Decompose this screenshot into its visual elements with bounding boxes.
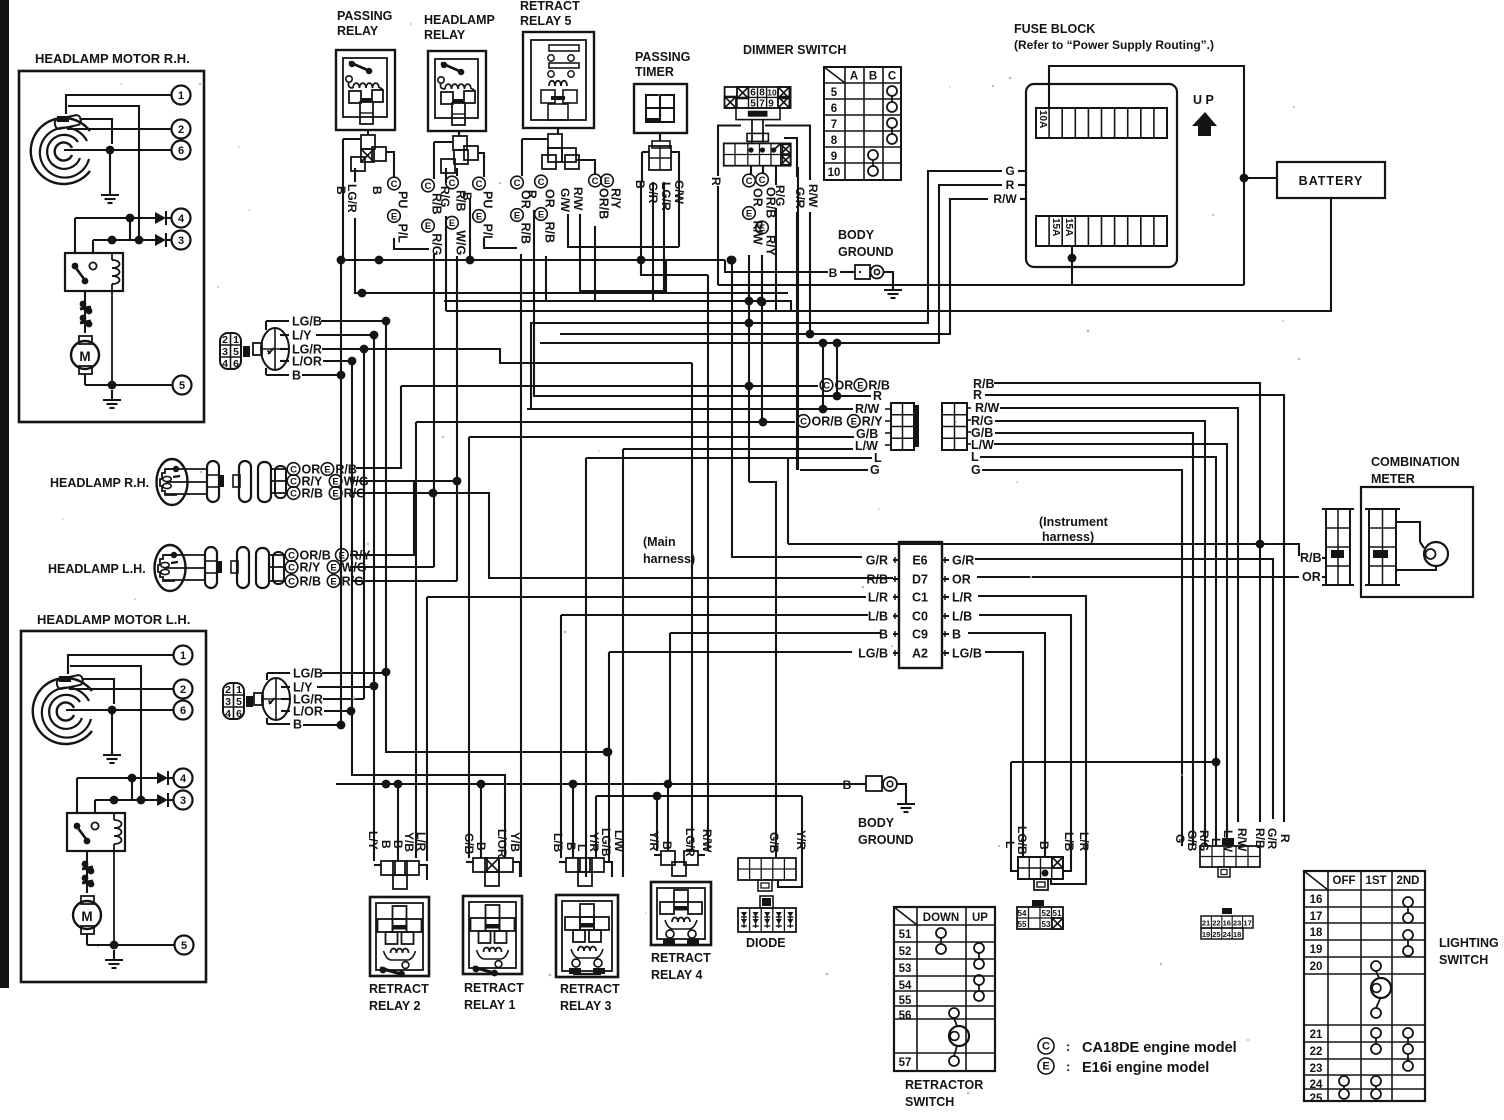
svg-text:C: C — [1042, 1040, 1050, 1052]
svg-text:51: 51 — [1053, 909, 1062, 918]
wire L inst — [980, 457, 1216, 846]
svg-text:SWITCH: SWITCH — [1439, 953, 1488, 967]
wire R/B to meter — [1260, 544, 1299, 556]
svg-text:4: 4 — [225, 708, 231, 720]
svg-text:Y/R: Y/R — [647, 831, 661, 851]
harness junction box E6-A2 — [899, 542, 942, 668]
svg-text:R: R — [525, 190, 539, 199]
wire G/R vertical right — [1272, 558, 1274, 560]
svg-text:BODY: BODY — [838, 228, 875, 242]
svg-text:5: 5 — [831, 87, 838, 99]
wire B passing relay — [342, 190, 344, 260]
svg-text:G/R: G/R — [866, 554, 888, 568]
svg-text:3: 3 — [225, 696, 231, 708]
wire timer G/W down — [678, 182, 680, 247]
headlamp R.H. bulb — [157, 459, 188, 505]
bus B bottom — [336, 783, 853, 785]
svg-text:C: C — [746, 176, 753, 187]
wire headlamp relay W/G stub — [456, 168, 458, 176]
svg-text:R/Y: R/Y — [300, 561, 322, 575]
svg-text:55: 55 — [899, 995, 912, 1007]
svg-text:23: 23 — [1310, 1063, 1323, 1075]
svg-text:16: 16 — [1310, 894, 1323, 906]
svg-text:R: R — [1006, 178, 1015, 192]
svg-text:B: B — [379, 840, 393, 849]
svg-text:C: C — [888, 71, 896, 83]
wire timer B branch — [641, 260, 708, 275]
svg-text:25: 25 — [1310, 1093, 1323, 1105]
svg-text:52: 52 — [1042, 909, 1051, 918]
svg-text:B: B — [292, 369, 301, 383]
vertical LG/R short — [363, 349, 365, 699]
svg-text:R/B: R/B — [302, 487, 324, 501]
svg-text:20: 20 — [1310, 961, 1323, 973]
wire LG/B A2 left — [609, 651, 852, 653]
svg-text:L/Y: L/Y — [292, 329, 312, 343]
svg-text:R/B: R/B — [300, 575, 322, 589]
svg-text:G/R: G/R — [1265, 828, 1279, 850]
svg-text:C: C — [290, 476, 297, 487]
svg-text:RETRACT: RETRACT — [651, 951, 711, 965]
svg-text:R/B: R/B — [1300, 551, 1322, 565]
svg-text:B: B — [879, 628, 888, 642]
svg-text:7: 7 — [831, 119, 837, 131]
svg-text:RELAY: RELAY — [424, 28, 466, 42]
svg-text:Y/B: Y/B — [508, 832, 522, 852]
svg-text:9: 9 — [831, 151, 837, 163]
svg-text:R: R — [709, 177, 723, 186]
wire dimmer OR/B down — [761, 255, 763, 422]
wire dimmer G/R down — [797, 167, 799, 470]
svg-text:Y/R: Y/R — [587, 832, 601, 852]
svg-text:1: 1 — [178, 90, 184, 102]
svg-text:1: 1 — [180, 650, 186, 662]
wire W/G vertical — [456, 256, 458, 581]
wire L lighting — [1011, 761, 1216, 763]
wire dimmer R/W down — [809, 212, 811, 334]
svg-text:L/B: L/B — [551, 833, 565, 853]
svg-text:8: 8 — [831, 135, 838, 147]
svg-text:LG/R: LG/R — [659, 182, 673, 211]
svg-text:B: B — [869, 71, 877, 83]
svg-text:21: 21 — [1310, 1029, 1323, 1041]
svg-text:RELAY 4: RELAY 4 — [651, 968, 702, 982]
wire RW vertical long — [707, 275, 709, 851]
svg-text:E: E — [1042, 1060, 1049, 1072]
wire retract5 G/W right — [568, 214, 679, 247]
main harness connector grid — [891, 403, 914, 450]
wire dimmer OR/RW down — [748, 255, 750, 482]
svg-text:54: 54 — [1018, 909, 1027, 918]
wire L/R C1 left — [427, 596, 866, 598]
svg-text:E: E — [514, 210, 520, 221]
wire L/B C0 left — [561, 614, 868, 616]
svg-text:R/B: R/B — [543, 222, 557, 244]
svg-text:(Instrument: (Instrument — [1039, 515, 1109, 529]
svg-text:RETRACTOR: RETRACTOR — [905, 1078, 983, 1092]
svg-text:19: 19 — [1202, 930, 1210, 939]
bus B top — [341, 259, 725, 261]
svg-text:C1: C1 — [912, 591, 928, 605]
svg-text:C: C — [823, 380, 830, 391]
headlamp R.H. connector pills — [166, 468, 207, 470]
wire RH row2 RY/WG — [352, 480, 457, 482]
wire Y/R diode down — [778, 796, 802, 887]
instrument harness connector grid — [942, 403, 967, 450]
wire feed row 301 — [444, 301, 791, 311]
wire motor RH conn LG/R — [322, 349, 692, 363]
wire R inst — [985, 395, 1284, 822]
fuse row top — [1036, 108, 1167, 138]
wire L/R RR2 — [426, 597, 428, 861]
battery box — [1277, 162, 1385, 198]
svg-text:C: C — [592, 176, 599, 187]
svg-text:E: E — [449, 218, 455, 229]
wire LH row2 link — [350, 566, 434, 568]
svg-text:C: C — [288, 562, 295, 573]
svg-text:OR: OR — [952, 573, 971, 587]
svg-text:L: L — [971, 450, 979, 464]
wire fuse G — [1018, 170, 1026, 172]
svg-text:E: E — [332, 488, 338, 499]
retract relay 5 lower connector — [548, 134, 562, 148]
svg-text:C: C — [476, 179, 483, 190]
svg-text:E6: E6 — [912, 554, 927, 568]
svg-text:B: B — [952, 628, 961, 642]
headlamp relay wire labels — [422, 179, 435, 192]
wire G/B inst — [995, 433, 1193, 846]
svg-text:3: 3 — [180, 795, 186, 807]
svg-text:4: 4 — [222, 358, 228, 370]
combination meter box — [1361, 487, 1473, 597]
svg-text:P/L: P/L — [481, 224, 495, 244]
dimmer switch lower connector — [751, 120, 753, 144]
wire fuse R — [1018, 184, 1026, 186]
wire B C9 right — [968, 633, 1045, 850]
sub-harness connector L/LG-B/B/L-B/L-R — [1018, 857, 1063, 879]
retract relay 1 box — [463, 896, 522, 974]
headlamp motor R.H. box — [19, 71, 204, 422]
svg-text:G/R: G/R — [793, 187, 807, 209]
svg-text:G/B: G/B — [767, 832, 781, 854]
svg-text:8: 8 — [759, 88, 765, 99]
svg-text:G: G — [1173, 834, 1187, 843]
svg-text:Y/B: Y/B — [402, 832, 416, 852]
svg-text:R/B: R/B — [519, 223, 533, 245]
svg-text:16: 16 — [1223, 919, 1231, 928]
svg-text:4: 4 — [178, 213, 185, 225]
diode connector — [738, 858, 796, 880]
main harness connector grid stubs — [885, 408, 891, 410]
svg-text:G: G — [1005, 164, 1014, 178]
svg-text:R: R — [1278, 834, 1292, 843]
dimmer R/G pin — [775, 166, 777, 185]
svg-text:2: 2 — [180, 684, 186, 696]
headlamp relay box — [428, 51, 486, 131]
svg-text:LG/B: LG/B — [858, 647, 888, 661]
wire motor RH conn LG/B — [321, 320, 386, 322]
svg-text:E: E — [476, 211, 482, 222]
svg-text:OR: OR — [1302, 570, 1321, 584]
svg-text:P/L: P/L — [396, 224, 410, 244]
combination meter outer connector — [1326, 509, 1350, 585]
svg-text:RELAY 5: RELAY 5 — [520, 14, 571, 28]
headlamp L.H. bulb — [155, 545, 186, 591]
headlamp relay P/L jumper — [484, 238, 517, 248]
svg-text:R: R — [973, 388, 982, 402]
svg-text:M: M — [79, 349, 90, 364]
svg-text:HEADLAMP MOTOR R.H.: HEADLAMP MOTOR R.H. — [35, 51, 190, 66]
svg-text:RETRACT: RETRACT — [369, 982, 429, 996]
svg-text:HEADLAMP MOTOR L.H.: HEADLAMP MOTOR L.H. — [37, 612, 190, 627]
svg-text:R/W: R/W — [806, 184, 820, 208]
svg-text:HEADLAMP L.H.: HEADLAMP L.H. — [48, 562, 146, 576]
wire headlamp relay R/G up-join — [445, 168, 447, 183]
svg-text:G/W: G/W — [558, 188, 572, 213]
svg-text:LG/B: LG/B — [952, 647, 982, 661]
wire G/R E6 right — [975, 559, 1273, 819]
instrument harness connector grid stubs — [967, 407, 971, 409]
retract relay 1 plug — [473, 858, 487, 872]
wire LG/R RR4 vertical — [691, 363, 693, 851]
svg-text:PU: PU — [481, 191, 495, 208]
svg-text:1: 1 — [236, 684, 242, 696]
svg-text:6: 6 — [180, 705, 186, 717]
dimmer OR pin — [750, 166, 752, 174]
svg-text:A2: A2 — [912, 647, 928, 661]
svg-text:LG/B: LG/B — [293, 667, 323, 681]
svg-text:R: R — [873, 389, 882, 403]
motor R.H. connector — [220, 333, 241, 369]
svg-text:E: E — [538, 209, 544, 220]
svg-text:53: 53 — [1042, 920, 1051, 929]
svg-text:E: E — [330, 576, 336, 587]
svg-text:22: 22 — [1212, 919, 1220, 928]
wire R/G inst — [995, 421, 1205, 846]
svg-text:E: E — [330, 562, 336, 573]
svg-text:C: C — [290, 464, 297, 475]
svg-text:C: C — [391, 179, 398, 190]
svg-text:DIODE: DIODE — [746, 936, 786, 950]
svg-text:GROUND: GROUND — [838, 245, 894, 259]
vertical B motors — [340, 260, 342, 725]
wire LW row main — [623, 448, 853, 450]
svg-text:17: 17 — [1310, 911, 1323, 923]
retract relay 5 box — [523, 32, 594, 128]
wire retract5 OR/B-R/Y down — [594, 226, 596, 301]
wire timer G/R down — [652, 182, 654, 302]
retract relay 5 wire labels — [511, 176, 524, 189]
svg-text:E: E — [759, 223, 765, 234]
wire motor RH conn L/OR — [323, 360, 352, 362]
svg-text:RELAY 2: RELAY 2 — [369, 999, 420, 1013]
headlamp R.H. pin rows — [258, 462, 271, 502]
wire G/R E6 left — [732, 260, 862, 557]
wire LG/B A2 right — [985, 652, 1023, 850]
svg-text:DIMMER SWITCH: DIMMER SWITCH — [743, 43, 846, 57]
wire B stubs to relays — [397, 784, 399, 861]
svg-text:UP: UP — [972, 912, 988, 924]
passing timer lower connector — [649, 146, 671, 170]
wire B headlamp relay — [469, 199, 471, 260]
svg-text:E16i engine model: E16i engine model — [1082, 1060, 1209, 1076]
wire motor LH conn rows — [322, 672, 386, 674]
wire L/B C0 right — [979, 615, 1071, 852]
svg-text:C: C — [288, 550, 295, 561]
wire B passing timer — [640, 182, 642, 260]
svg-text:52: 52 — [899, 946, 912, 958]
svg-text:15A: 15A — [1063, 218, 1074, 236]
svg-text:LIGHTING: LIGHTING — [1439, 936, 1499, 950]
svg-text:OR/B: OR/B — [812, 415, 843, 429]
wire battery connect — [1244, 177, 1277, 179]
svg-text:L/R: L/R — [952, 591, 972, 605]
svg-text:L/OR: L/OR — [495, 829, 509, 858]
main harness connector labels — [820, 379, 833, 392]
svg-text:PASSING: PASSING — [337, 9, 392, 23]
svg-text:C: C — [425, 181, 432, 192]
relay pin stubs — [367, 130, 369, 135]
wire L row branch down to R/B meter line — [787, 459, 789, 544]
svg-text:GROUND: GROUND — [858, 833, 914, 847]
svg-text:HEADLAMP: HEADLAMP — [424, 13, 495, 27]
headlamp L.H. pin rows — [256, 548, 269, 588]
svg-text:E: E — [604, 176, 610, 187]
legend E E16i — [1038, 1058, 1054, 1074]
svg-text:2: 2 — [222, 334, 228, 346]
wire retract5 R/W jog — [580, 214, 666, 291]
wire link R to R row — [836, 343, 838, 396]
lighting switch connector 21-25 — [1201, 916, 1253, 928]
svg-text:(Main: (Main — [643, 535, 676, 549]
svg-text:G/R: G/R — [952, 554, 974, 568]
svg-text:C: C — [538, 177, 545, 188]
wire link R to RW row — [822, 343, 824, 409]
diode pack — [760, 896, 773, 908]
svg-text:METER: METER — [1371, 472, 1415, 486]
svg-text:RETRACT: RETRACT — [464, 981, 524, 995]
svg-text:E: E — [391, 211, 397, 222]
svg-text:RELAY: RELAY — [337, 24, 379, 38]
wire dimmer R/G down — [775, 208, 777, 311]
dimmer switch contact table — [824, 67, 901, 180]
wire R dimmer to fuse — [718, 284, 1244, 286]
svg-text:5: 5 — [181, 940, 187, 952]
svg-text:19: 19 — [1310, 944, 1323, 956]
svg-text:R/Y: R/Y — [609, 188, 623, 210]
wire headlamp relay RB/RG down — [433, 254, 435, 567]
combination meter lamp — [1424, 542, 1448, 566]
svg-text:E: E — [857, 380, 863, 391]
svg-text:24: 24 — [1310, 1079, 1323, 1091]
svg-text:R/G: R/G — [430, 233, 444, 255]
svg-text:(Refer to “Power Supply Routin: (Refer to “Power Supply Routing”.) — [1014, 38, 1214, 52]
wire passing relay LG/R — [354, 168, 356, 182]
headlamp relay lower connector — [453, 136, 467, 150]
svg-text:51: 51 — [899, 929, 912, 941]
svg-text:SWITCH: SWITCH — [905, 1095, 954, 1109]
wire ORB row main — [416, 421, 795, 423]
svg-text:L: L — [1003, 841, 1017, 848]
dimmer OR/B pin — [762, 166, 764, 173]
svg-text:R/W: R/W — [975, 401, 1000, 415]
svg-text:OR/B: OR/B — [597, 188, 611, 219]
wire L/R C1 right — [978, 596, 1086, 852]
svg-text:B: B — [370, 186, 384, 195]
svg-text:BATTERY: BATTERY — [1299, 174, 1364, 188]
svg-text:6: 6 — [831, 103, 837, 115]
retractor switch table — [894, 907, 995, 1071]
vertical LG/B — [386, 321, 609, 752]
svg-text:BODY: BODY — [858, 816, 895, 830]
retract relay 4 box — [651, 882, 711, 945]
svg-text:L/OR: L/OR — [292, 355, 322, 369]
svg-text:B: B — [829, 266, 838, 280]
svg-text:C0: C0 — [912, 610, 928, 624]
svg-text:C9: C9 — [912, 628, 928, 642]
retract relay 3 box — [556, 895, 618, 977]
svg-text:5: 5 — [179, 380, 185, 392]
svg-text:LG/B: LG/B — [599, 828, 613, 857]
wire RH row1 OR/RB — [356, 386, 401, 468]
svg-text:U P: U P — [1193, 93, 1214, 107]
svg-text:55: 55 — [1018, 920, 1027, 929]
svg-text:E: E — [324, 464, 330, 475]
svg-text:53: 53 — [899, 963, 912, 975]
wire LH row1 link — [350, 481, 414, 555]
wire motor RH conn L/Y — [316, 334, 374, 336]
passing relay box — [336, 50, 395, 130]
passing relay P/L jumper — [394, 238, 429, 249]
svg-text:2ND: 2ND — [1396, 875, 1419, 887]
svg-text:1ST: 1ST — [1365, 875, 1386, 887]
svg-text:6: 6 — [236, 708, 242, 720]
svg-text:RETRACT: RETRACT — [520, 0, 580, 13]
dimmer G/R bracket — [784, 138, 797, 177]
svg-text:COMBINATION: COMBINATION — [1371, 455, 1460, 469]
svg-text::: : — [1066, 1059, 1070, 1074]
passing timer box — [634, 84, 687, 133]
svg-text:harness): harness) — [1042, 530, 1094, 544]
svg-text:24: 24 — [1223, 930, 1232, 939]
wire L/W RR3 — [622, 876, 624, 878]
passing relay lower connector — [361, 135, 375, 149]
svg-text:18: 18 — [1310, 927, 1323, 939]
wire R/W inst — [1000, 408, 1238, 822]
retract relay 2 box — [370, 897, 429, 976]
svg-text:57: 57 — [899, 1057, 912, 1069]
svg-text:G: G — [870, 463, 880, 477]
retractor switch connector — [1017, 907, 1063, 929]
svg-text:22: 22 — [1310, 1046, 1323, 1058]
wire fuse R/W — [1020, 198, 1026, 200]
wire retract5 OR-RB left leg down to RR1 Y/B — [520, 254, 522, 877]
svg-text:DOWN: DOWN — [923, 912, 959, 924]
svg-text:C: C — [449, 178, 456, 189]
wire RH row3 RB/RG to D7 — [352, 493, 893, 578]
svg-text:56: 56 — [899, 1010, 912, 1022]
wire R row main — [534, 210, 871, 396]
wire B C9 left — [670, 632, 880, 634]
svg-text:R/W: R/W — [571, 187, 585, 211]
svg-text:L/R: L/R — [1077, 832, 1091, 852]
svg-text:C: C — [800, 416, 807, 427]
svg-text:2: 2 — [225, 684, 231, 696]
svg-text:OR: OR — [543, 189, 557, 208]
svg-text:C: C — [288, 576, 295, 587]
wire motor RH conn B — [302, 374, 341, 376]
fuse row bottom — [1036, 216, 1167, 246]
